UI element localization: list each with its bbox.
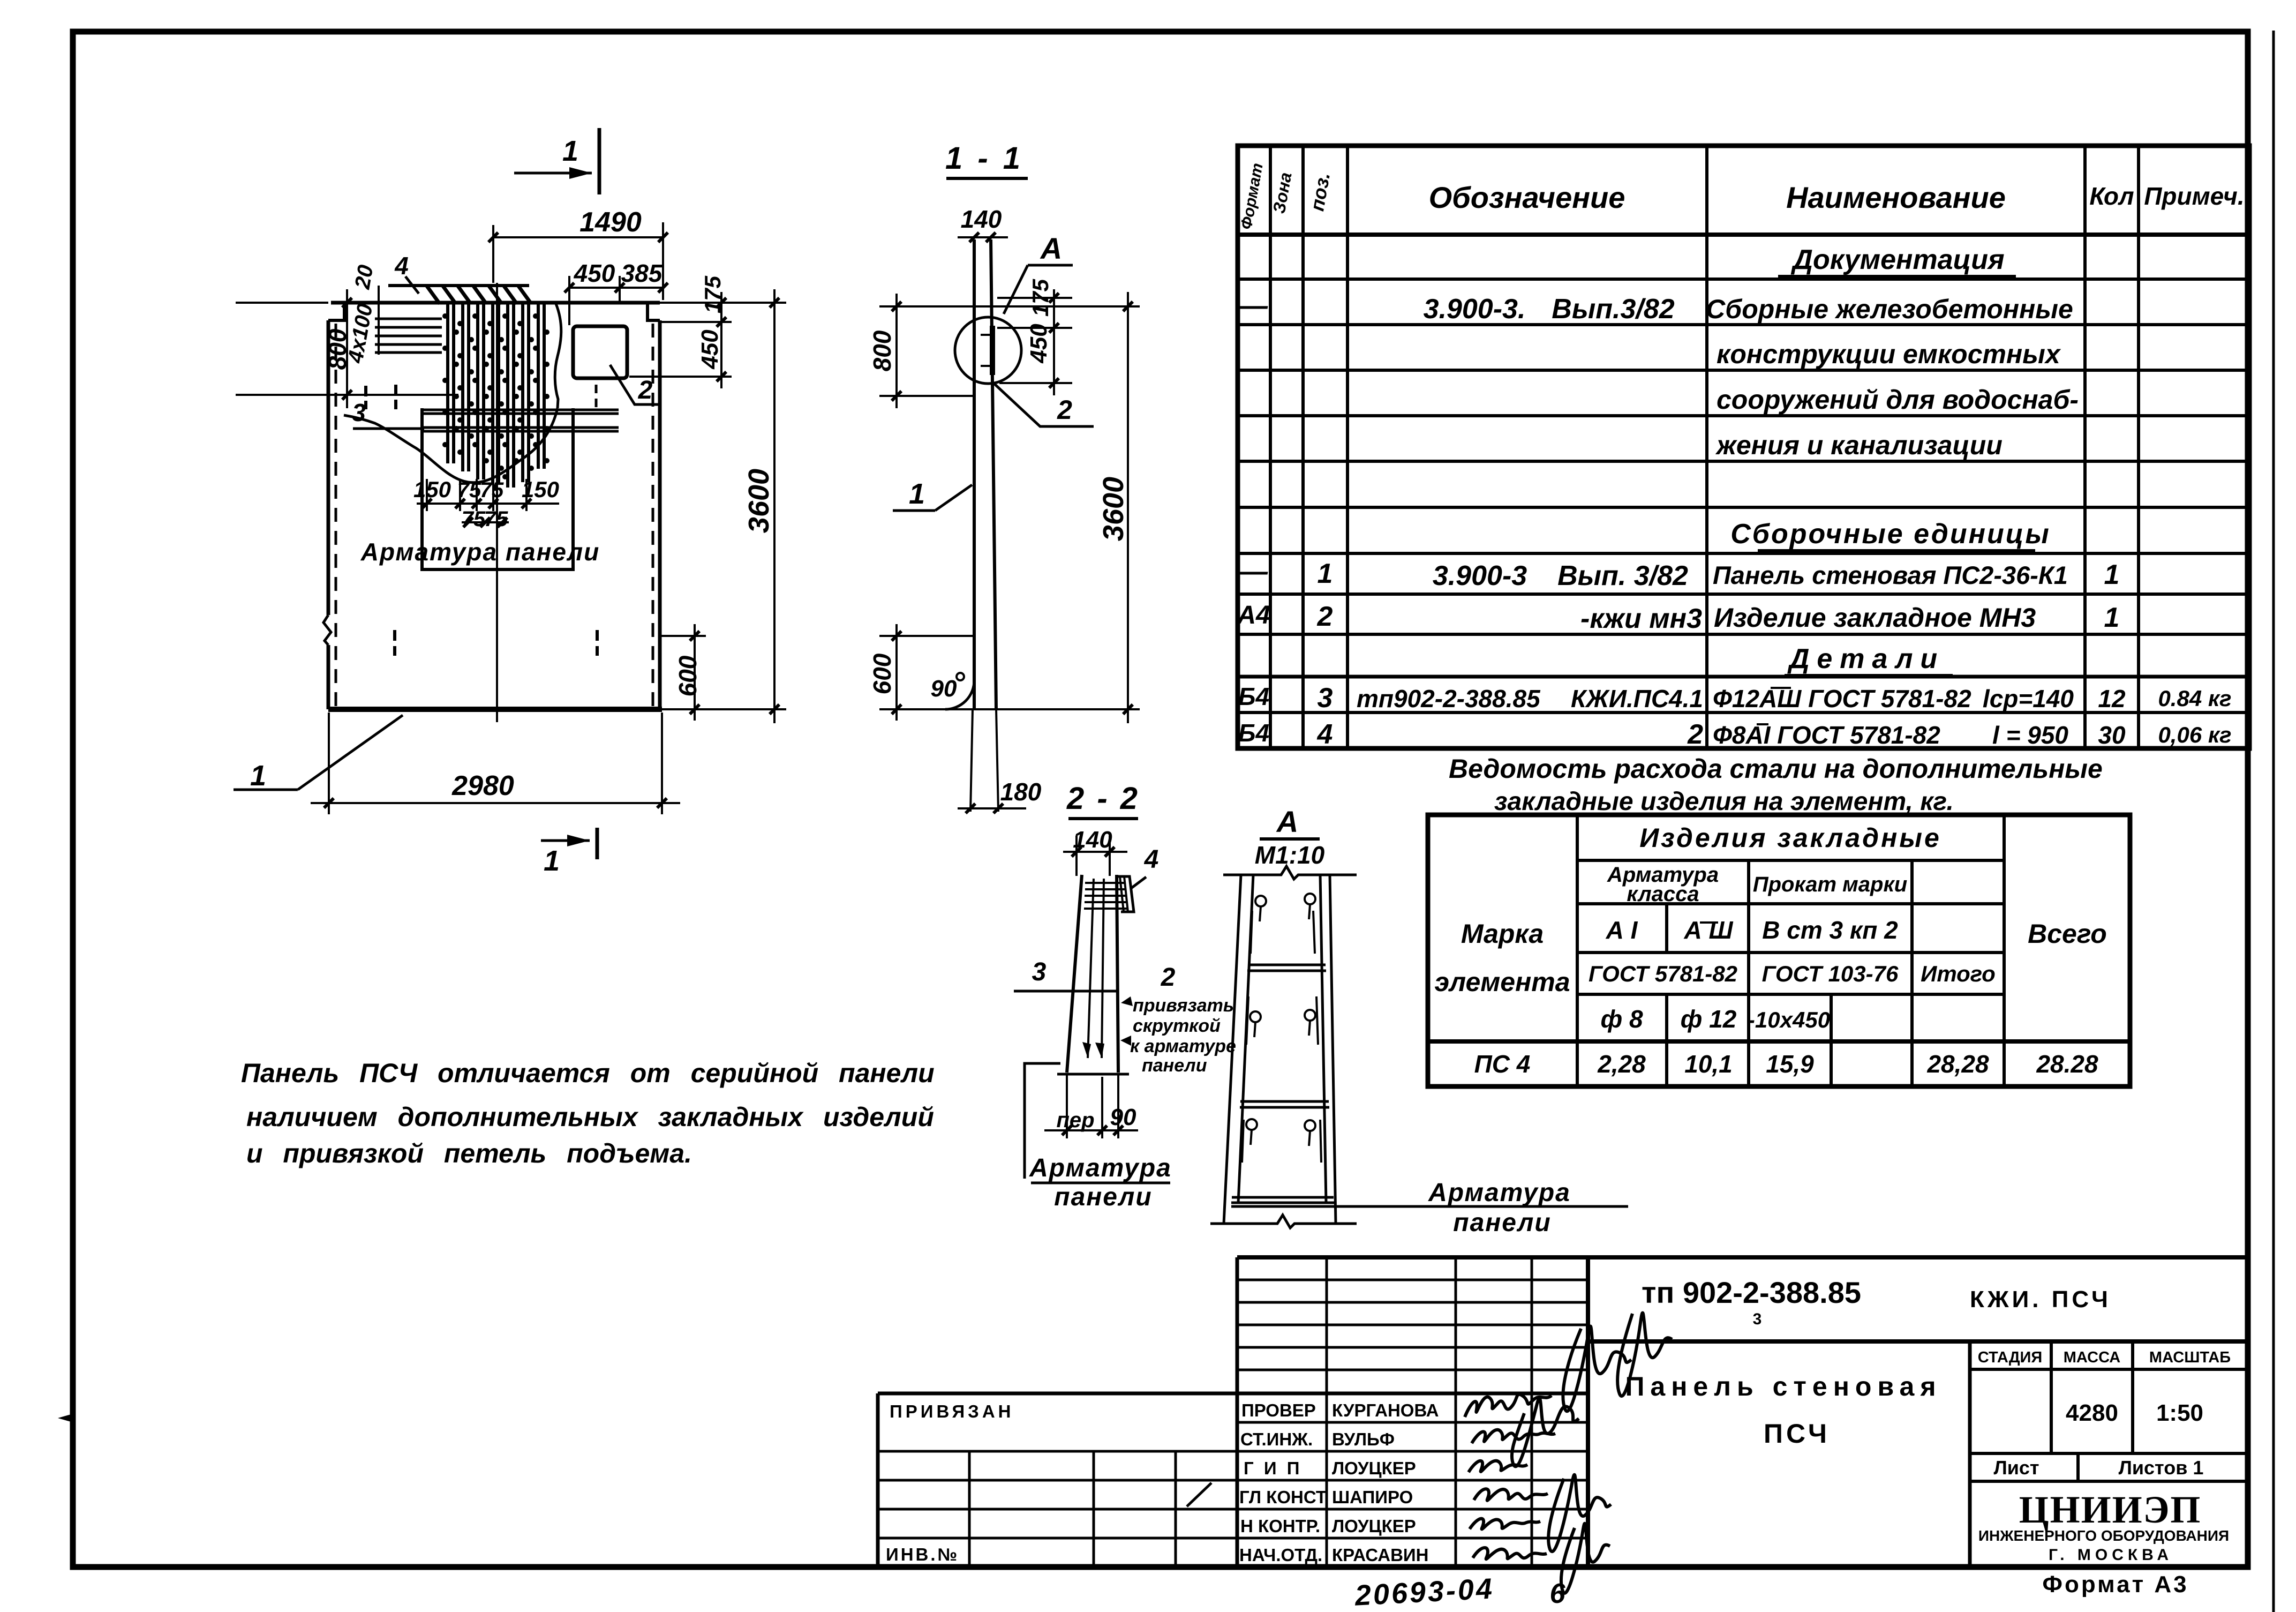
svg-text:2 - 2: 2 - 2 [1066, 781, 1140, 816]
svg-text:2: 2 [1161, 963, 1176, 992]
svg-text:4х100: 4х100 [343, 302, 377, 365]
svg-text:Ф8АI ГОСТ 5781-82: Ф8АI ГОСТ 5781-82 [1713, 721, 1940, 749]
svg-text:600: 600 [674, 655, 702, 696]
svg-text:—: — [1239, 556, 1268, 587]
svg-text:ВУЛЬФ: ВУЛЬФ [1332, 1429, 1395, 1449]
svg-text:4: 4 [394, 252, 409, 280]
svg-text:А: А [1040, 231, 1062, 265]
svg-text:1490: 1490 [579, 207, 642, 238]
svg-text:-10х450: -10х450 [1748, 1007, 1830, 1032]
svg-text:2: 2 [1057, 395, 1072, 425]
svg-text:lср=140: lср=140 [1983, 685, 2074, 713]
svg-text:20: 20 [350, 263, 378, 291]
svg-text:тп 902-2-388.85: тп 902-2-388.85 [1642, 1276, 1861, 1309]
svg-text:Марка: Марка [1461, 919, 1544, 949]
svg-text:4280: 4280 [2066, 1400, 2118, 1426]
svg-text:3.900-3: 3.900-3 [1433, 560, 1527, 591]
svg-text:ПС 4: ПС 4 [1474, 1050, 1531, 1078]
svg-text:450: 450 [697, 329, 723, 370]
svg-text:1: 1 [1318, 558, 1333, 589]
svg-text:450: 450 [574, 259, 615, 287]
svg-text:175: 175 [700, 275, 725, 313]
svg-text:2980: 2980 [451, 770, 514, 801]
svg-text:Арматура: Арматура [1029, 1154, 1172, 1182]
svg-text:КЖИ. ПСЧ: КЖИ. ПСЧ [1970, 1286, 2111, 1313]
svg-text:4: 4 [1144, 845, 1159, 874]
svg-text:Панель стеновая: Панель стеновая [1625, 1371, 1941, 1401]
svg-text:скруткой: скруткой [1133, 1016, 1221, 1036]
svg-text:ЛОУЦКЕР: ЛОУЦКЕР [1332, 1458, 1416, 1478]
svg-text:15,9: 15,9 [1766, 1050, 1814, 1078]
svg-text:Б4: Б4 [1238, 719, 1269, 747]
svg-text:Изделие закладное МН3: Изделие закладное МН3 [1714, 603, 2036, 633]
svg-text:ЛОУЦКЕР: ЛОУЦКЕР [1332, 1516, 1416, 1536]
svg-text:10,1: 10,1 [1684, 1050, 1733, 1078]
svg-text:элемента: элемента [1434, 967, 1570, 997]
svg-text:75: 75 [457, 478, 481, 502]
svg-text:2: 2 [638, 376, 653, 404]
svg-text:2: 2 [1687, 719, 1703, 750]
svg-text:Ведомость расхода стали на доп: Ведомость расхода стали на дополнительны… [1449, 754, 2103, 784]
svg-text:180: 180 [1000, 778, 1042, 806]
svg-text:ПРОВЕР: ПРОВЕР [1241, 1400, 1316, 1420]
svg-text:СТАДИЯ: СТАДИЯ [1978, 1349, 2042, 1366]
svg-text:М1:10: М1:10 [1255, 841, 1325, 869]
svg-text:1: 1 [909, 478, 925, 510]
svg-text:Всего: Всего [2028, 919, 2107, 949]
svg-text:Арматура: Арматура [1428, 1179, 1571, 1207]
svg-text:Г И П: Г И П [1244, 1458, 1302, 1478]
svg-text:Зона: Зона [1269, 171, 1296, 215]
svg-text:МАССА: МАССА [2064, 1349, 2121, 1366]
svg-text:3: 3 [352, 399, 366, 426]
svg-text:Панель стеновая ПС2-36-К1: Панель стеновая ПС2-36-К1 [1713, 561, 2068, 589]
svg-text:12: 12 [2098, 685, 2126, 713]
svg-text:l = 950: l = 950 [1992, 721, 2068, 749]
svg-text:ИНВ.№: ИНВ.№ [886, 1544, 959, 1564]
svg-text:Лист: Лист [1993, 1457, 2039, 1479]
svg-text:ЦНИИЭП: ЦНИИЭП [2019, 1488, 2202, 1531]
svg-text:140: 140 [961, 205, 1002, 233]
svg-text:ПСЧ: ПСЧ [1764, 1419, 1830, 1449]
svg-text:Сборочные единицы: Сборочные единицы [1730, 519, 2051, 550]
svg-text:3: 3 [1753, 1310, 1762, 1328]
svg-text:панели: панели [1054, 1183, 1152, 1211]
svg-text:ИНЖЕНЕРНОГО ОБОРУДОВАНИЯ: ИНЖЕНЕРНОГО ОБОРУДОВАНИЯ [1978, 1527, 2229, 1544]
svg-text:75: 75 [480, 478, 504, 502]
svg-text:450: 450 [1026, 324, 1052, 364]
svg-text:В ст 3 кп 2: В ст 3 кп 2 [1762, 916, 1898, 944]
svg-text:1: 1 [2104, 559, 2120, 590]
svg-text:75: 75 [484, 507, 508, 531]
svg-text:0,06 кг: 0,06 кг [2158, 722, 2231, 747]
svg-text:150: 150 [413, 477, 451, 502]
svg-text:Листов 1: Листов 1 [2119, 1457, 2204, 1479]
svg-text:90: 90 [931, 676, 957, 702]
svg-text:3600: 3600 [1097, 477, 1130, 541]
svg-text:наличием дополнительных заклад: наличием дополнительных закладных издели… [246, 1102, 934, 1132]
svg-text:Итого: Итого [1921, 961, 1996, 986]
svg-text:800: 800 [868, 330, 896, 371]
svg-text:закладные изделия на элемент,: закладные изделия на элемент, кг. [1494, 788, 1954, 816]
svg-text:1: 1 [562, 135, 578, 167]
svg-text:А Ш: А Ш [1683, 916, 1733, 944]
svg-text:Формат: Формат [1238, 162, 1267, 231]
svg-text:1:50: 1:50 [2156, 1400, 2203, 1426]
svg-text:КУРГАНОВА: КУРГАНОВА [1332, 1400, 1439, 1420]
svg-text:2: 2 [1317, 601, 1333, 632]
svg-text:пер: пер [1056, 1108, 1094, 1132]
svg-text:А4: А4 [1237, 601, 1270, 629]
svg-text:Изделия закладные: Изделия закладные [1639, 823, 1941, 853]
svg-text:класса: класса [1627, 882, 1699, 906]
svg-text:0.84 кг: 0.84 кг [2158, 686, 2231, 711]
svg-text:75: 75 [462, 507, 486, 531]
svg-text:Примеч.: Примеч. [2144, 182, 2244, 210]
svg-text:3.900-3.: 3.900-3. [1424, 294, 1526, 325]
svg-text:Ф12АШ ГОСТ 5781-82: Ф12АШ ГОСТ 5781-82 [1713, 685, 1971, 713]
svg-text:175: 175 [1028, 279, 1053, 317]
svg-text:ШАПИРО: ШАПИРО [1332, 1487, 1413, 1507]
svg-text:-кжи мн3: -кжи мн3 [1580, 603, 1702, 634]
svg-text:поз.: поз. [1306, 171, 1334, 213]
svg-text:Г. МОСКВА: Г. МОСКВА [2049, 1546, 2173, 1564]
svg-text:КРАСАВИН: КРАСАВИН [1332, 1545, 1429, 1565]
svg-text:МАСШТАБ: МАСШТАБ [2149, 1349, 2231, 1366]
svg-text:3: 3 [1032, 958, 1047, 986]
svg-text:Вып. 3/82: Вып. 3/82 [1557, 560, 1688, 591]
svg-text:3: 3 [1318, 683, 1333, 714]
svg-text:жения и канализации: жения и канализации [1715, 430, 2003, 460]
svg-text:385: 385 [621, 259, 663, 287]
svg-text:сооружений для водоснаб-: сооружений для водоснаб- [1717, 385, 2079, 415]
svg-text:4: 4 [1317, 719, 1333, 750]
svg-text:Прокат марки: Прокат марки [1753, 873, 1907, 896]
svg-text:1: 1 [250, 760, 266, 792]
svg-text:конструкции емкостных: конструкции емкостных [1717, 339, 2061, 369]
svg-text:ГОСТ 103-76: ГОСТ 103-76 [1762, 961, 1899, 986]
svg-text:ф 8: ф 8 [1600, 1005, 1643, 1033]
svg-text:30: 30 [2098, 721, 2126, 749]
svg-text:и привязкой петель подъема.: и привязкой петель подъема. [246, 1138, 692, 1168]
svg-text:Кол: Кол [2089, 182, 2134, 210]
svg-text:Документация: Документация [1790, 244, 2004, 275]
svg-text:ПРИВЯЗАН: ПРИВЯЗАН [890, 1401, 1014, 1421]
svg-text:ГЛ КОНСТ: ГЛ КОНСТ [1239, 1487, 1327, 1507]
svg-text:КЖИ.ПС4.1: КЖИ.ПС4.1 [1571, 685, 1703, 713]
svg-text:НАЧ.ОТД.: НАЧ.ОТД. [1239, 1545, 1322, 1565]
svg-text:Арматура панели: Арматура панели [360, 538, 600, 566]
svg-text:2,28: 2,28 [1597, 1050, 1646, 1078]
svg-text:панели: панели [1142, 1055, 1207, 1076]
svg-text:150: 150 [522, 477, 559, 502]
svg-text:90: 90 [1110, 1104, 1136, 1130]
svg-text:Наименование: Наименование [1786, 181, 2006, 214]
svg-text:привязать: привязать [1133, 995, 1234, 1016]
svg-text:ф 12: ф 12 [1681, 1005, 1737, 1033]
svg-text:Детали: Детали [1787, 643, 1945, 674]
svg-text:—: — [1239, 290, 1268, 321]
svg-text:140: 140 [1073, 827, 1112, 853]
svg-text:1: 1 [544, 845, 560, 877]
svg-text:Н КОНТР.: Н КОНТР. [1240, 1516, 1320, 1536]
svg-text:Формат А3: Формат А3 [2042, 1571, 2188, 1598]
svg-text:600: 600 [868, 653, 896, 694]
svg-text:3600: 3600 [743, 469, 775, 533]
svg-text:28,28: 28,28 [1926, 1050, 1989, 1078]
svg-text:Сборные железобетонные: Сборные железобетонные [1706, 294, 2073, 324]
svg-text:к арматуре: к арматуре [1130, 1036, 1236, 1056]
svg-text:тп902-2-388.85: тп902-2-388.85 [1357, 685, 1541, 713]
svg-text:Вып.3/82: Вып.3/82 [1552, 294, 1674, 325]
svg-text:28.28: 28.28 [2036, 1050, 2098, 1078]
svg-text:панели: панели [1453, 1209, 1551, 1237]
svg-text:СТ.ИНЖ.: СТ.ИНЖ. [1240, 1429, 1313, 1449]
svg-text:1 - 1: 1 - 1 [945, 141, 1023, 176]
svg-text:1: 1 [2104, 602, 2120, 633]
svg-text:Панель ПСЧ отличается от серий: Панель ПСЧ отличается от серийной панели [241, 1058, 935, 1088]
svg-text:20693-04: 20693-04 [1353, 1572, 1495, 1612]
svg-text:А I: А I [1606, 916, 1638, 944]
svg-text:Обозначение: Обозначение [1429, 181, 1625, 214]
svg-text:ГОСТ 5781-82: ГОСТ 5781-82 [1589, 961, 1737, 986]
svg-text:А: А [1276, 805, 1298, 838]
svg-text:Б4: Б4 [1238, 683, 1269, 710]
